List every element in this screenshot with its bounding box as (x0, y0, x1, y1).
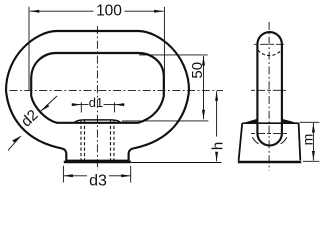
dimension m: vertical line (312, 123, 314, 161)
dimension d3: left witness line (62, 166, 64, 183)
dimension h: line lower segment (216, 156, 218, 162)
side view: right dome wedge (282, 119, 299, 124)
dimension 100: left arrowhead (30, 10, 40, 13)
dimension 50: bottom witness line (from boss face) (122, 120, 208, 122)
dimension d3: line left segment (63, 175, 87, 177)
dimension 50: top arrowhead (202, 56, 205, 66)
dimension 100: line left segment (30, 10, 94, 12)
dimension d2: leader line lower segment (8, 136, 21, 150)
side view: hidden inner arc (dashed) (258, 50, 282, 56)
thread hidden line right inner (110, 121, 112, 162)
side view: base bottom thick line (238, 161, 301, 164)
side view: cap center horizontal mark (254, 43, 285, 45)
dimension d3: left arrowhead (63, 174, 73, 177)
dimension d3: right arrowhead (121, 174, 131, 177)
side view: shank/bar right edge (281, 44, 283, 133)
dimension 100: line right segment (125, 10, 164, 12)
base bottom thick line (front view) (64, 161, 131, 164)
dimension 100: left witness line (28, 7, 30, 90)
svg-text:d3: d3 (89, 173, 107, 190)
dimension h: bottom arrowhead (215, 152, 218, 162)
dimension m: bottom witness line (303, 160, 319, 162)
svg-text:h: h (210, 142, 227, 150)
dimension d1: right tail line (115, 104, 125, 106)
outer ring outline (front view) (6, 31, 189, 161)
side view: U center horizontal mark (251, 132, 289, 134)
dimension m: top witness line (300, 121, 320, 123)
inner ring hole outline (front view) (31, 53, 164, 123)
svg-text:50: 50 (189, 62, 206, 79)
dimension 50: top witness line (from inner top edge) (139, 54, 208, 56)
dimension d2: upper arrowhead (pointing down-left onto inner edge) (41, 104, 50, 111)
side view: vertical centerline (268, 22, 270, 171)
dimension 50: bottom arrowhead (202, 110, 205, 120)
dimension d1: right arrowhead (pointing left) (115, 103, 125, 106)
dimension h: top arrowhead (215, 91, 218, 101)
boss top face line (74, 120, 121, 123)
dimension d1: right witness line (114, 102, 116, 112)
dimension 100: right arrowhead (154, 10, 164, 13)
side view: base left side (239, 123, 243, 161)
dimension m: bottom arrowhead (312, 151, 315, 161)
dimension d3: right witness line (130, 166, 132, 183)
dimension d1: left witness line (80, 102, 82, 112)
side view: ring center horizontal mark (251, 89, 286, 91)
dimension m: top arrowhead (312, 123, 315, 133)
side view: base right side (299, 123, 301, 160)
side view: bar bottom U semicircle (257, 133, 282, 145)
thread hidden line left inner (84, 121, 86, 162)
side view: base trapezoid top edge (242, 122, 298, 124)
horizontal centerline (front view) (10, 89, 224, 91)
side view: left fillet mark (252, 137, 258, 144)
side view: shank/bar left edge (256, 44, 258, 133)
thread hidden line right outer (113, 121, 115, 162)
dimension d1: inner stub right (104, 104, 115, 106)
dimension d1: inner stub left (81, 104, 88, 106)
vertical centerline (front view) (96, 26, 98, 170)
dimension d2: leader line upper segment (41, 96, 57, 111)
svg-text:d1: d1 (89, 95, 103, 110)
dimension d2: lower arrowhead (pointing up-right onto outer edge) (12, 136, 21, 143)
dimension h: line upper segment (216, 91, 218, 136)
dimension d1: left arrowhead (pointing right) (72, 103, 82, 106)
dimension 100: right witness line (163, 7, 165, 88)
side view: top cap semicircle (257, 32, 282, 44)
svg-text:m: m (299, 134, 315, 146)
dimension 50: vertical line (203, 56, 205, 119)
side view: right fillet mark (281, 137, 287, 144)
svg-text:100: 100 (96, 3, 122, 20)
dimension d3: line right segment (109, 175, 131, 177)
thread hidden line left outer (80, 121, 82, 162)
side view: left dome wedge (242, 119, 257, 124)
dimension d1: left tail line (72, 104, 82, 106)
dimension h: bottom witness line (from base bottom) (131, 162, 222, 164)
